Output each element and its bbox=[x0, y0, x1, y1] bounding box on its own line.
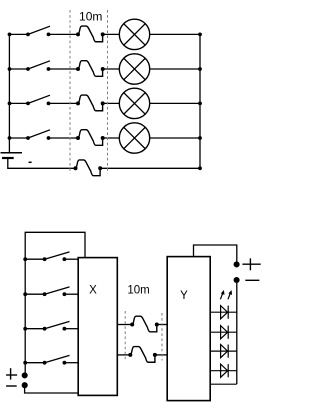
wire row2 cable to lamp bbox=[103, 68, 120, 70]
switch S4 bbox=[26, 136, 30, 140]
node row3 cable left bbox=[76, 101, 80, 105]
wire row2 switch to cable bbox=[49, 68, 79, 70]
svg-text:X: X bbox=[89, 285, 97, 297]
lamp L1 bbox=[119, 19, 149, 49]
wire b-row4 bus to switch bbox=[25, 362, 44, 364]
node cable A left bbox=[130, 323, 134, 327]
wire right bus (top circuit) bbox=[199, 34, 201, 168]
svg-text:10m: 10m bbox=[127, 284, 149, 296]
box X bbox=[78, 258, 117, 396]
switch S2 bbox=[26, 67, 30, 71]
node row3 cable right bbox=[101, 101, 105, 105]
node b-row3 left bus bbox=[23, 327, 27, 331]
wire row3 switch to cable bbox=[49, 102, 79, 104]
minus sign (top right) bbox=[245, 279, 259, 281]
switch S6 bbox=[43, 292, 47, 296]
node return cable left bbox=[74, 166, 78, 170]
battery terminal positive (top right) bbox=[234, 261, 240, 267]
wire X to cable B bbox=[117, 354, 130, 356]
wire negative terminal rail bbox=[236, 283, 238, 384]
wire b-row4 switch to box X bbox=[64, 362, 78, 364]
wire row4 switch to cable bbox=[49, 137, 79, 139]
wire LED rung 2 bbox=[210, 331, 237, 333]
node b-row4 left bus bbox=[23, 361, 27, 365]
wire LED rung 4 bbox=[210, 370, 237, 372]
node row2 cable left bbox=[76, 67, 80, 71]
lamp L3 bbox=[119, 88, 149, 118]
wire row1 switch to cable bbox=[49, 33, 79, 35]
node row2 left bus bbox=[8, 67, 12, 71]
battery terminal negative (top right) bbox=[234, 277, 240, 283]
wire negative terminal to box X bbox=[25, 385, 79, 393]
node row2 cable right bbox=[101, 67, 105, 71]
LED D2 bbox=[221, 326, 229, 339]
wire box Y to positive terminal bbox=[194, 245, 237, 262]
wire row3 bus to switch bbox=[10, 102, 29, 104]
cable squiggle A bbox=[132, 316, 157, 332]
switch S3 bbox=[26, 102, 30, 106]
node row4 right bus bbox=[198, 136, 202, 140]
node row1 cable right bbox=[101, 32, 105, 36]
boundary dashed line left (10m cable, top) bbox=[69, 10, 71, 174]
node cable B left bbox=[128, 353, 132, 357]
battery terminal positive (bottom left) bbox=[22, 372, 28, 378]
node b-row2 left bus bbox=[23, 292, 27, 296]
wire LED rung 3 bbox=[210, 350, 237, 352]
cable squiggle row2 bbox=[78, 61, 103, 77]
wire LED ladder bottom connector bbox=[210, 383, 237, 385]
boundary dashed line right (10m cable, top) bbox=[107, 10, 109, 174]
node cable B right bbox=[153, 353, 157, 357]
plus sign (top right) bbox=[242, 258, 260, 270]
battery BT1 negative plate bbox=[2, 157, 14, 159]
wire b-row1 bus to switch bbox=[25, 258, 44, 260]
node row4 cable left bbox=[76, 136, 80, 140]
LED D4 bbox=[221, 364, 229, 377]
battery BT1 positive plate bbox=[1, 152, 23, 154]
node row1 right bus bbox=[198, 33, 202, 37]
wire LED rung 1 bbox=[210, 311, 237, 313]
node return cable right bbox=[98, 166, 102, 170]
lamp L2 bbox=[119, 54, 149, 84]
wire row1 lamp to right bus bbox=[150, 33, 200, 35]
wire row1 cable to lamp bbox=[103, 33, 120, 35]
wire b-row2 bus to switch bbox=[25, 293, 44, 295]
node cable A right bbox=[155, 323, 159, 327]
battery terminal negative (bottom left) bbox=[22, 382, 28, 388]
LED emission arrows bbox=[220, 290, 232, 299]
boundary dashed line right (10m cable, bottom) bbox=[161, 313, 163, 361]
wire top bus (bottom circuit) bbox=[25, 232, 85, 375]
switch S7 bbox=[43, 327, 47, 331]
wire row1 bus to switch bbox=[10, 33, 29, 35]
wire row2 bus to switch bbox=[10, 68, 29, 70]
lamp L4 bbox=[119, 123, 149, 153]
node b-row1 left bus bbox=[23, 257, 27, 261]
wire row3 lamp to right bus bbox=[150, 102, 200, 104]
wire cable B to box Y bbox=[155, 354, 167, 356]
node return right bus bbox=[198, 166, 202, 170]
wire cable A to box Y bbox=[157, 324, 167, 326]
svg-text:10m: 10m bbox=[79, 10, 102, 24]
boundary dashed line left (10m cable, bottom) bbox=[124, 311, 126, 359]
wire b-row3 switch to box X bbox=[64, 328, 78, 330]
node row1 left bus bbox=[8, 33, 12, 37]
node row2 right bus bbox=[198, 67, 202, 71]
wire row4 cable to lamp bbox=[103, 137, 120, 139]
minus sign (bottom left) bbox=[6, 385, 17, 387]
wire b-row3 bus to switch bbox=[25, 328, 44, 330]
switch S1 bbox=[26, 33, 30, 37]
wire X to cable A bbox=[117, 324, 132, 326]
wire row4 lamp to right bus bbox=[150, 137, 200, 139]
node row4 left bus bbox=[8, 136, 12, 140]
wire b-row1 switch to box X bbox=[64, 258, 78, 260]
cable squiggle return bbox=[76, 160, 101, 176]
LED D3 bbox=[221, 345, 229, 358]
wire return to right bus bbox=[100, 167, 200, 169]
switch S8 bbox=[43, 361, 47, 365]
node row3 left bus bbox=[8, 102, 12, 106]
cable squiggle row3 bbox=[78, 95, 103, 111]
wire left bus (top circuit) bbox=[8, 34, 10, 152]
wire row3 cable to lamp bbox=[103, 102, 120, 104]
node row3 right bus bbox=[198, 102, 202, 106]
plus sign (bottom left) bbox=[6, 368, 17, 379]
cable squiggle row4 bbox=[78, 130, 103, 146]
cable squiggle row1 bbox=[78, 26, 103, 42]
wire battery to bottom return bbox=[8, 158, 76, 168]
battery BT1 minus label bbox=[29, 161, 32, 163]
box Y bbox=[167, 257, 210, 401]
node row1 cable left bbox=[76, 32, 80, 36]
svg-text:Y: Y bbox=[180, 290, 188, 302]
wire row4 bus to switch bbox=[10, 137, 29, 139]
cable squiggle B bbox=[130, 347, 155, 363]
node row4 cable right bbox=[101, 136, 105, 140]
wire b-row2 switch to box X bbox=[64, 293, 78, 295]
LED D1 bbox=[221, 306, 229, 319]
switch S5 bbox=[43, 257, 47, 261]
wire row2 lamp to right bus bbox=[150, 68, 200, 70]
